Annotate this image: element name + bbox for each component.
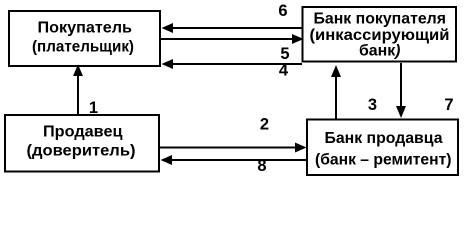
svg-text:(банк – ремитент): (банк – ремитент) <box>315 152 452 169</box>
svg-text:(доверитель): (доверитель) <box>27 142 136 159</box>
box: Банк продавца (банк – ремитент) <box>307 120 458 176</box>
arrow 2: seller to bank of seller (right) <box>160 143 307 153</box>
svg-text:Банк покупателя: Банк покупателя <box>314 10 447 27</box>
arrow 5: buyer to bank of buyer (right) <box>161 34 304 44</box>
arrow 7: bank of buyer to bank of seller (down) <box>396 63 406 118</box>
arrow 1: seller to buyer (up) <box>73 65 83 115</box>
svg-text:1: 1 <box>89 99 98 117</box>
box: Банк покупателя (инкассирующий банк) <box>303 7 457 62</box>
arrow 6: bank of buyer to buyer (left) <box>162 23 302 33</box>
box: Покупатель (плательщик) <box>9 11 160 66</box>
arrow 3: bank of seller to bank of buyer (up) <box>331 65 341 119</box>
svg-text:банк): банк) <box>359 43 401 60</box>
svg-text:(инкассирующий: (инкассирующий <box>310 27 450 44</box>
svg-text:5: 5 <box>280 45 289 63</box>
svg-text:2: 2 <box>260 116 269 134</box>
svg-text:4: 4 <box>279 62 289 80</box>
svg-text:Продавец: Продавец <box>43 124 123 141</box>
svg-text:8: 8 <box>257 157 266 175</box>
arrow 8: bank of seller to seller (left) <box>161 155 308 165</box>
svg-text:3: 3 <box>368 96 377 114</box>
arrow 4: bank of buyer to buyer (left, bottom) <box>162 59 303 69</box>
svg-text:6: 6 <box>278 2 287 20</box>
svg-text:(плательщик): (плательщик) <box>32 39 134 56</box>
svg-text:Покупатель: Покупатель <box>38 20 133 37</box>
svg-text:7: 7 <box>444 96 453 114</box>
svg-text:Банк продавца: Банк продавца <box>325 130 443 147</box>
box: Продавец (доверитель) <box>5 115 159 172</box>
